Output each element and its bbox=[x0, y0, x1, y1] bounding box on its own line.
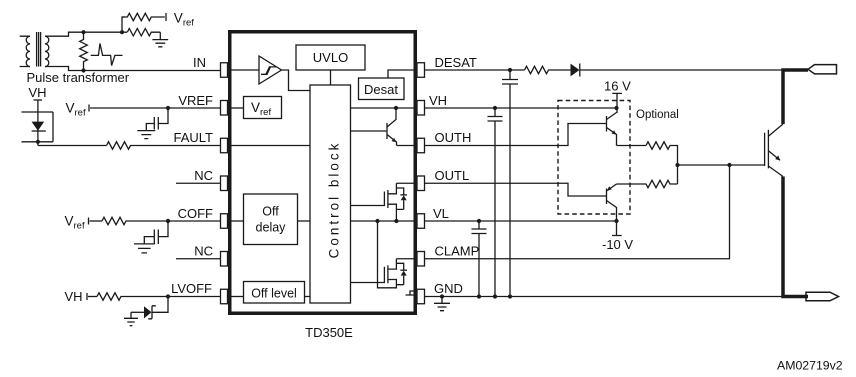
wire OUTH internal bbox=[397, 145, 418, 147]
svg-text:COFF: COFF bbox=[178, 206, 213, 221]
wire FAULT pin to control block bbox=[232, 145, 311, 147]
pin box OUTL bbox=[417, 176, 425, 191]
svg-text:CLAMP: CLAMP bbox=[435, 244, 480, 259]
svg-text:VL: VL bbox=[433, 206, 449, 221]
wire DESAT to collector bus bbox=[580, 69, 783, 71]
terminal flag bottom bbox=[806, 292, 839, 301]
UVLO block bbox=[296, 45, 365, 70]
capacitor C6 (VL) bbox=[472, 221, 487, 297]
wire LVOFF pin to Off level bbox=[232, 296, 244, 298]
svg-text:Off level: Off level bbox=[251, 287, 297, 301]
wire Off delay to control block bbox=[298, 220, 311, 222]
wire gate line bbox=[678, 164, 765, 166]
pin box DESAT bbox=[417, 63, 425, 78]
wire DESAT line bbox=[425, 69, 525, 71]
wire OUTL to booster base bbox=[425, 183, 607, 196]
ground (C3) bbox=[134, 244, 155, 253]
wire Desat block to DESAT pin bbox=[388, 70, 417, 78]
node junction D1 branch bbox=[36, 140, 40, 144]
node junction VL/-10V bbox=[614, 219, 618, 223]
resistor R6 (LVOFF series) bbox=[97, 293, 221, 300]
terminal tick Vref top bbox=[165, 13, 167, 21]
resistor R4 (FAULT series) bbox=[107, 142, 221, 149]
pin box OUTH bbox=[417, 138, 425, 153]
pin box CLAMP bbox=[417, 252, 425, 267]
wire CLAMP internal bbox=[396, 258, 417, 260]
capacitor C3 (COFF) bbox=[144, 221, 168, 244]
svg-text:delay: delay bbox=[256, 221, 287, 235]
resistor R7 (DESAT series) bbox=[525, 66, 571, 73]
svg-text:AM02719v2: AM02719v2 bbox=[777, 359, 843, 373]
wire COFF pin to Off delay bbox=[232, 220, 244, 222]
pin box VREF bbox=[221, 101, 228, 116]
node junction VREF/C2 bbox=[166, 106, 170, 110]
svg-text:NC: NC bbox=[194, 168, 213, 183]
wire collector bus (thick) bbox=[781, 68, 808, 124]
node junction VL/C6 bbox=[477, 219, 481, 223]
wire VH line bbox=[425, 107, 617, 109]
svg-text:FAULT: FAULT bbox=[174, 130, 214, 145]
terminal tick VH bbox=[34, 99, 43, 101]
wire VH internal bbox=[351, 107, 418, 109]
pin box NC lower bbox=[221, 252, 228, 267]
capacitor C2 (VREF decoupling) bbox=[146, 108, 168, 131]
resistor R5 (COFF series) bbox=[102, 217, 221, 224]
svg-text:-10 V: -10 V bbox=[602, 237, 633, 252]
wire CLAMP line bbox=[425, 165, 730, 259]
svg-text:VH: VH bbox=[29, 85, 47, 100]
svg-text:TD350E: TD350E bbox=[305, 325, 353, 340]
wire NC lower bbox=[176, 258, 221, 260]
wire IN pin to schmitt buffer bbox=[232, 69, 260, 71]
Off delay block bbox=[244, 194, 298, 245]
svg-text:VH: VH bbox=[429, 93, 447, 108]
wire Off level to control block bbox=[305, 296, 311, 298]
transistor Q2 (booster NPN) bbox=[607, 113, 617, 146]
wire NC upper bbox=[176, 182, 221, 184]
diode D3 (DESAT blocking) bbox=[571, 64, 580, 77]
pin box VH bbox=[417, 101, 425, 116]
wire OUTH to booster base bbox=[425, 124, 607, 146]
control block bbox=[310, 85, 351, 303]
wire UVLO to control block bbox=[330, 70, 332, 85]
node junction COFF/C3 bbox=[166, 219, 170, 223]
pin box NC upper bbox=[221, 176, 228, 191]
pin box GND bbox=[417, 289, 425, 304]
wire OUTL internal bbox=[396, 182, 417, 184]
svg-text:Vref: Vref bbox=[66, 101, 86, 119]
wire VREF pin to Vref block bbox=[232, 107, 244, 109]
wire secondary top to rail bbox=[45, 32, 127, 36]
node junction DESAT/C4 bbox=[508, 68, 512, 72]
wire IN line bbox=[84, 70, 221, 72]
wire LVOFF left bbox=[88, 296, 97, 298]
svg-text:NC: NC bbox=[194, 244, 213, 259]
wire buffer output to control block bbox=[282, 70, 311, 91]
svg-text:Control block: Control block bbox=[327, 141, 342, 259]
wire secondary bottom to IN rail bbox=[45, 67, 84, 71]
pin box IN bbox=[221, 63, 228, 78]
svg-text:GND: GND bbox=[434, 281, 463, 296]
wire COFF left bbox=[90, 220, 103, 222]
Desat block bbox=[359, 78, 405, 100]
svg-text:IN: IN bbox=[193, 55, 206, 70]
svg-text:Optional: Optional bbox=[636, 109, 679, 121]
transistor Q1 (internal pull-up) bbox=[351, 108, 397, 146]
svg-text:Vref: Vref bbox=[174, 11, 194, 29]
svg-text:Off: Off bbox=[262, 205, 279, 219]
IC U1 TD350E body bbox=[230, 32, 416, 314]
node junction GND/C5 bbox=[493, 294, 497, 298]
node junction gate node bbox=[675, 163, 679, 167]
supply tick 16V bbox=[612, 92, 622, 94]
terminal tick VREF bbox=[88, 105, 90, 112]
wire VH to FAULT line bbox=[37, 100, 39, 146]
node junction VH internal bbox=[394, 106, 398, 110]
zener diode D2 (LVOFF) bbox=[131, 297, 168, 319]
Vref block bbox=[244, 97, 282, 119]
capacitor C5 (VH) bbox=[488, 108, 503, 297]
node junction gate/clamp bbox=[727, 163, 731, 167]
pin box VL bbox=[417, 214, 425, 229]
ground (C2) bbox=[137, 131, 155, 139]
wire GND internal bracket bbox=[406, 291, 418, 295]
node junction LVOFF bbox=[166, 294, 170, 298]
ground (LVOFF) bbox=[124, 312, 138, 325]
node junction VH/C5 bbox=[493, 106, 497, 110]
svg-text:Vref: Vref bbox=[251, 100, 271, 118]
terminal flag top bbox=[808, 65, 837, 74]
terminal tick COFF bbox=[88, 218, 90, 225]
wire VL internal bbox=[351, 220, 418, 222]
wire emitter bus (thick) bbox=[781, 177, 808, 299]
terminal tick LVOFF bbox=[86, 293, 88, 300]
mosfet M1 (OUTL sink) bbox=[351, 183, 408, 221]
node junction GND/C6 bbox=[477, 294, 481, 298]
svg-text:16 V: 16 V bbox=[604, 79, 631, 94]
wire VL line bbox=[425, 220, 617, 222]
node junction GND/ground bbox=[440, 294, 444, 298]
resistor R8 (gate on) bbox=[646, 142, 678, 184]
resistor R1 (parallel across secondary) bbox=[80, 32, 88, 70]
pin box LVOFF bbox=[221, 289, 228, 304]
svg-text:Pulse transformer: Pulse transformer bbox=[27, 70, 130, 85]
wire 16V supply bbox=[616, 93, 618, 113]
ground (top left) bbox=[152, 32, 168, 47]
pin box FAULT bbox=[221, 138, 228, 153]
resistor R3 (rail to ground) bbox=[127, 29, 160, 36]
resistor R9 (gate off) bbox=[617, 180, 678, 187]
svg-text:DESAT: DESAT bbox=[435, 55, 477, 70]
Off level block bbox=[244, 282, 305, 304]
node junction IN rail bbox=[81, 68, 85, 72]
wire FAULT line bbox=[38, 145, 107, 147]
svg-text:VREF: VREF bbox=[178, 93, 213, 108]
node junction top rail left bbox=[81, 30, 85, 34]
ground (GND pin) bbox=[434, 297, 450, 311]
IGBT Q4 bbox=[765, 124, 783, 177]
svg-text:LVOFF: LVOFF bbox=[171, 281, 212, 296]
resistor R2 (to Vref) bbox=[122, 13, 165, 20]
node junction VL internal left bbox=[375, 219, 379, 223]
wire GND rail bbox=[425, 296, 784, 298]
svg-text:VH: VH bbox=[65, 289, 83, 304]
pin box COFF bbox=[221, 214, 228, 229]
optional booster dashed box bbox=[558, 101, 630, 215]
svg-text:Vref: Vref bbox=[65, 214, 85, 232]
wire rail to resistor R2 bbox=[122, 17, 125, 32]
node junction GND/C4 bbox=[508, 294, 512, 298]
transistor Q3 (booster PNP) bbox=[607, 184, 617, 221]
svg-text:Desat: Desat bbox=[364, 82, 398, 97]
capacitor C4 (DESAT) bbox=[502, 70, 518, 297]
svg-text:OUTH: OUTH bbox=[435, 130, 472, 145]
svg-text:UVLO: UVLO bbox=[313, 50, 348, 65]
wire booster emitter to Ron bbox=[617, 145, 647, 147]
zener diode D1 (VH clamp) bbox=[32, 122, 46, 131]
pulse transformer T1 bbox=[20, 32, 49, 67]
wire branch around D1 bbox=[22, 112, 54, 142]
node junction top rail right bbox=[120, 30, 124, 34]
schmitt buffer U1A bbox=[259, 56, 282, 84]
mosfet M2 (clamp) bbox=[351, 221, 408, 288]
supply tick -10V bbox=[612, 221, 622, 236]
wire VREF line bbox=[90, 107, 221, 109]
node junction 16V/VH bbox=[614, 106, 618, 110]
pulse waveform symbol bbox=[91, 44, 123, 66]
node junction VL internal right bbox=[394, 219, 398, 223]
svg-text:OUTL: OUTL bbox=[435, 168, 470, 183]
